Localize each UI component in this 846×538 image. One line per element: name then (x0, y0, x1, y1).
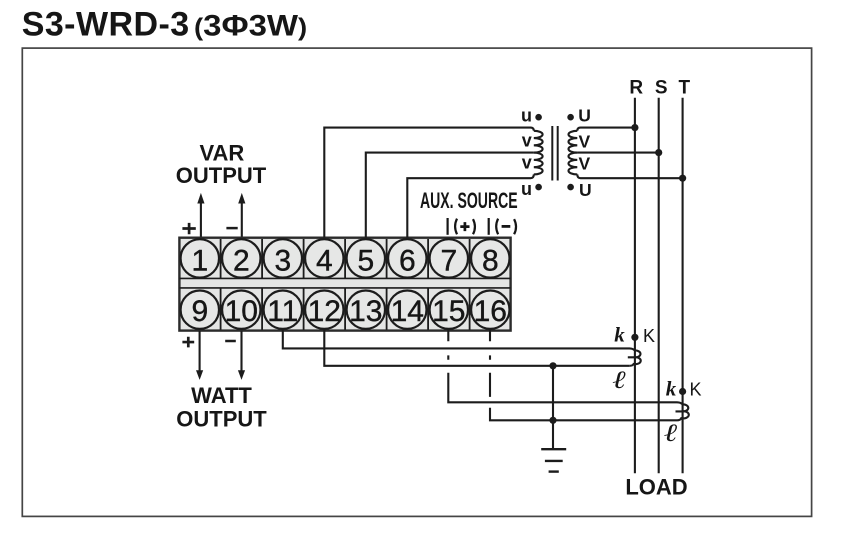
wire CT1 l to terminal 12 (324, 330, 629, 366)
svg-text:LOAD: LOAD (625, 475, 687, 500)
WATT + polarity (182, 337, 194, 348)
svg-text:(3Φ3W): (3Φ3W) (194, 8, 307, 42)
svg-text:AUX. SOURCE: AUX. SOURCE (420, 188, 518, 213)
svg-text:k: k (614, 323, 625, 347)
svg-text:9: 9 (191, 295, 208, 328)
svg-text:ℓ: ℓ (613, 366, 627, 394)
CT2 secondary coil turn 2 (677, 411, 689, 420)
svg-text:S: S (655, 77, 668, 98)
CT1 secondary coil turn 1 (628, 350, 641, 357)
PT polarity dot U top (567, 114, 574, 121)
svg-text:u: u (521, 105, 532, 125)
wire terminal 11 to CT1 k (283, 330, 635, 351)
svg-text:V: V (578, 154, 590, 174)
CT2 secondary coil turn 1 (676, 404, 689, 411)
ground (541, 449, 566, 471)
terminal 11 (264, 291, 302, 329)
svg-text:OUTPUT: OUTPUT (176, 163, 267, 188)
wire PT secondary bottom U to bus T (577, 174, 682, 178)
bus T line (682, 98, 684, 474)
wire PT secondary mid V to bus S (577, 152, 658, 154)
node CT2 l junction (549, 417, 556, 424)
svg-text:VAR: VAR (199, 141, 244, 166)
terminal 16 (471, 291, 509, 329)
node CT1 l junction (549, 362, 556, 369)
terminal 1 (181, 239, 219, 277)
svg-text:ℓ: ℓ (664, 419, 678, 447)
svg-text:12: 12 (308, 295, 341, 328)
bus R line (634, 98, 636, 474)
wire terminal 4 to PT primary top u (324, 128, 534, 238)
PT secondary winding coil 2 (568, 153, 577, 175)
terminal 14 (388, 291, 426, 329)
terminal 5 (347, 239, 385, 277)
terminal 2 (222, 239, 260, 277)
svg-text:u: u (521, 179, 532, 199)
svg-text:16: 16 (474, 295, 507, 328)
svg-text:14: 14 (391, 295, 424, 328)
PT core (552, 126, 557, 181)
PT primary winding coil 1 (534, 131, 543, 153)
terminal 4 (305, 239, 343, 277)
svg-text:8: 8 (482, 244, 499, 277)
svg-text:5: 5 (357, 244, 374, 277)
CT1 secondary coil turn 2 (629, 357, 640, 366)
title S3-WRD-3 (3phi3W) (22, 6, 307, 44)
node T to PT (679, 175, 686, 182)
WATT output label (176, 383, 267, 431)
svg-text:K: K (690, 380, 702, 400)
svg-text:WATT: WATT (191, 383, 252, 408)
svg-text:15: 15 (432, 295, 465, 328)
arrow terminal 2 VAR output (238, 193, 245, 237)
svg-text:3: 3 (274, 244, 291, 277)
terminal 7 (430, 239, 468, 277)
aux - terminal 8 label (489, 218, 516, 235)
WATT - polarity (225, 340, 236, 343)
svg-text:6: 6 (399, 244, 416, 277)
terminal 13 (347, 291, 385, 329)
svg-text:R: R (629, 77, 643, 98)
node S to PT (655, 149, 662, 156)
wire terminal 5 to PT primary mid v (366, 153, 534, 238)
svg-text:U: U (579, 180, 592, 200)
svg-text:T: T (678, 77, 690, 98)
terminal 3 (264, 239, 302, 277)
arrow terminal 1 VAR output (197, 193, 204, 237)
svg-text:k: k (666, 377, 677, 401)
PT polarity dot U bottom (567, 184, 574, 191)
wire earth stem (552, 366, 554, 449)
svg-text:V: V (578, 131, 590, 151)
svg-text:1: 1 (191, 244, 208, 277)
wire terminal 6 to PT primary bottom u (407, 174, 534, 237)
terminal 10 (222, 291, 260, 329)
wire CT2 l to terminal 16 (490, 330, 677, 421)
arrow terminal 9 WATT output (196, 331, 203, 380)
arrow terminal 10 WATT output (238, 331, 245, 380)
terminal block TB1 body (179, 238, 510, 331)
svg-text:U: U (578, 105, 591, 125)
svg-text:v: v (522, 130, 532, 150)
PT polarity dot u bottom (535, 184, 542, 191)
VAR output label (176, 141, 267, 189)
svg-text:OUTPUT: OUTPUT (176, 407, 267, 432)
terminal 15 (430, 291, 468, 329)
node CT1 dot on bus R (631, 334, 638, 341)
PT polarity dot u top (535, 114, 542, 121)
node R to PT (631, 124, 638, 131)
svg-text:v: v (522, 153, 532, 173)
svg-text:13: 13 (349, 295, 382, 328)
wire PT secondary top U to bus R (577, 128, 635, 131)
VAR + polarity (182, 223, 195, 234)
PT secondary winding coil 1 (568, 131, 577, 153)
svg-text:11: 11 (267, 295, 298, 328)
svg-text:4: 4 (316, 244, 333, 277)
node CT2 dot on bus T (679, 388, 686, 395)
svg-text:S3-WRD-3: S3-WRD-3 (22, 6, 190, 44)
svg-text:2: 2 (233, 244, 250, 277)
terminal 9 (181, 291, 219, 329)
terminal 12 (305, 291, 343, 329)
terminal 6 (388, 239, 426, 277)
svg-text:K: K (643, 326, 655, 346)
aux + terminal 7 label (448, 218, 475, 235)
wire terminal 15 to CT2 k (448, 330, 682, 405)
terminal 8 (471, 239, 509, 277)
VAR - polarity (226, 227, 237, 230)
svg-text:7: 7 (440, 244, 457, 277)
bus S line (658, 98, 660, 474)
svg-text:10: 10 (225, 295, 258, 328)
PT primary winding coil 2 (534, 153, 543, 175)
